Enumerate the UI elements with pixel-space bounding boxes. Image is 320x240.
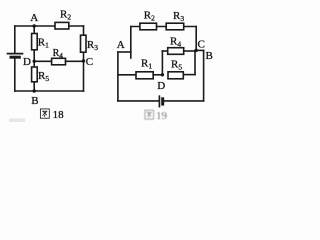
svg-text:R4: R4	[170, 36, 181, 49]
svg-text:D: D	[157, 80, 165, 92]
svg-text:R1: R1	[38, 36, 49, 49]
svg-text:A: A	[30, 12, 38, 24]
svg-text:R5: R5	[171, 58, 182, 71]
svg-text:18: 18	[53, 109, 65, 121]
svg-text:B: B	[206, 50, 213, 62]
svg-text:A: A	[117, 39, 125, 51]
svg-text:D: D	[23, 56, 31, 68]
svg-text:19: 19	[156, 110, 168, 122]
svg-text:C: C	[198, 39, 205, 51]
svg-text:R5: R5	[38, 70, 49, 83]
svg-text:B: B	[31, 95, 38, 107]
svg-text:R3: R3	[87, 39, 98, 52]
svg-text:R1: R1	[141, 58, 152, 71]
svg-text:R2: R2	[60, 9, 71, 22]
svg-text:R3: R3	[173, 10, 184, 23]
svg-text:R4: R4	[53, 48, 64, 60]
svg-text:R2: R2	[144, 10, 155, 23]
svg-text:C: C	[86, 56, 93, 68]
